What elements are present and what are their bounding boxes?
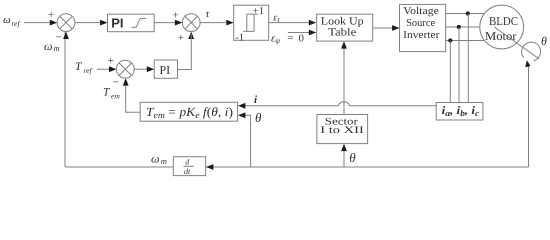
wire current vector i with hop <box>244 102 436 106</box>
wire phase b <box>446 26 482 28</box>
sector detector block <box>317 115 368 144</box>
wire left feedback vertical to speed summer <box>64 32 66 167</box>
motor shaft <box>494 27 539 59</box>
svg-text:+1: +1 <box>253 6 264 17</box>
svg-text:=: = <box>287 32 293 44</box>
wire theta into sector block <box>343 146 345 167</box>
wire PI1 to summer 2 <box>154 22 177 24</box>
wire PI2 up to summer 2 <box>178 34 192 70</box>
arrowhead omega_m into summer 1 <box>63 32 69 39</box>
junction dot phase a <box>466 11 470 15</box>
look up table block <box>317 14 373 41</box>
PI controller block 2 <box>154 60 177 78</box>
svg-text:−: − <box>56 32 62 44</box>
summing junction 1 <box>57 14 75 32</box>
svg-text:−: − <box>113 77 119 89</box>
svg-text:PI: PI <box>111 16 123 31</box>
svg-text:m: m <box>161 156 167 166</box>
summing junction 3 <box>116 60 134 78</box>
wire theta into torque estimator <box>244 115 251 167</box>
wire current tap b <box>458 27 460 103</box>
svg-text:0: 0 <box>299 34 304 45</box>
svg-text:Source: Source <box>406 18 435 29</box>
currents measurement block ia ib ic <box>436 103 483 121</box>
PI controller block 1 with limiter <box>108 14 155 32</box>
svg-text:Table: Table <box>328 27 356 39</box>
arrowhead theta into d/dt <box>206 164 213 170</box>
svg-text:dt: dt <box>184 167 191 176</box>
torque estimator block Tem = pKe f(theta,i) <box>140 102 237 121</box>
wire current tap c <box>449 41 451 103</box>
junction dot phase c <box>448 38 452 42</box>
svg-text:I to XII: I to XII <box>320 125 364 136</box>
svg-text:+: + <box>173 10 179 22</box>
svg-text:θ: θ <box>541 34 547 48</box>
svg-text:+: + <box>178 32 184 44</box>
summing junction 2 <box>182 14 200 32</box>
wire Tem feedback to summer 3 <box>126 81 141 112</box>
wire phase c <box>446 40 485 42</box>
wire right sensor vertical <box>528 64 530 167</box>
wire summer1 to PI1 <box>75 22 102 24</box>
wire epsilon_tau to lookup table <box>269 22 312 24</box>
wire omega_ref input <box>24 22 52 24</box>
svg-text:Inverter: Inverter <box>403 30 440 41</box>
svg-text:θ: θ <box>349 150 356 165</box>
saturation glyph inside PI1 <box>131 18 146 27</box>
wire summer 2 to hysteresis <box>200 22 228 24</box>
wire sector to lookup table <box>343 44 345 115</box>
hysteresis controller block <box>234 5 269 40</box>
wire Tref input <box>97 68 112 70</box>
svg-text:Motor: Motor <box>485 29 517 43</box>
BLDC motor <box>480 5 524 49</box>
svg-text:BLDC: BLDC <box>489 14 518 28</box>
wire summer 3 to PI2 <box>134 68 149 70</box>
svg-text:-1: -1 <box>235 33 244 44</box>
wire lookup table to VSI <box>373 27 395 29</box>
wire current tap a <box>467 14 469 103</box>
svg-text:em: em <box>111 91 120 100</box>
svg-text:Voltage: Voltage <box>403 6 439 17</box>
voltage source inverter block <box>400 4 446 51</box>
position sensor arc <box>522 42 541 61</box>
svg-text:PI: PI <box>160 63 171 77</box>
wire phase a <box>446 13 487 15</box>
wire bottom feedback line <box>65 166 529 168</box>
svg-text:ref: ref <box>12 19 21 28</box>
wire epsilon_psi to lookup table <box>288 32 312 34</box>
svg-text:θ: θ <box>255 110 262 125</box>
svg-text:ω: ω <box>151 151 159 165</box>
relay glyph <box>243 14 258 31</box>
svg-text:m: m <box>54 43 60 53</box>
svg-text:ref: ref <box>84 66 93 75</box>
arrowhead sensor <box>525 60 530 67</box>
junction dot phase b <box>457 25 461 29</box>
arrowhead torque cmd into summer 2 <box>188 32 194 39</box>
svg-text:ετ: ετ <box>273 13 280 25</box>
svg-text:ω: ω <box>44 39 52 53</box>
differentiator block d/dt <box>173 157 205 176</box>
svg-text:+: + <box>48 9 54 21</box>
svg-text:+: + <box>108 55 115 67</box>
svg-text:ω: ω <box>3 14 11 26</box>
svg-text:Look Up: Look Up <box>321 15 364 27</box>
